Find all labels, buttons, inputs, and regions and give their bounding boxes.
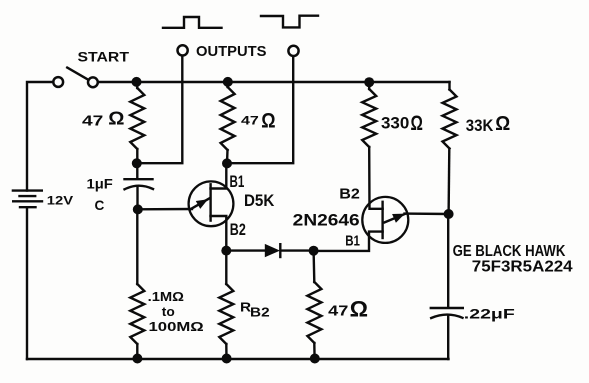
svg-text:B2: B2 bbox=[250, 305, 270, 320]
svg-text:C: C bbox=[95, 198, 105, 213]
svg-text:.1MΩ: .1MΩ bbox=[148, 289, 184, 304]
svg-text:.22μF: .22μF bbox=[464, 305, 516, 321]
svg-text:1μF: 1μF bbox=[87, 176, 114, 192]
svg-text:Ω: Ω bbox=[108, 109, 124, 129]
svg-text:47: 47 bbox=[328, 303, 348, 319]
svg-text:Ω: Ω bbox=[350, 297, 368, 322]
svg-text:12V: 12V bbox=[47, 194, 74, 207]
svg-text:Ω: Ω bbox=[495, 113, 510, 135]
svg-text:100MΩ: 100MΩ bbox=[149, 319, 205, 334]
svg-text:OUTPUTS: OUTPUTS bbox=[196, 43, 267, 60]
svg-text:B2: B2 bbox=[339, 186, 360, 202]
svg-text:75F3R5A224: 75F3R5A224 bbox=[472, 259, 573, 276]
svg-text:47: 47 bbox=[82, 114, 103, 130]
svg-text:2N2646: 2N2646 bbox=[293, 211, 360, 229]
svg-text:B2: B2 bbox=[230, 221, 246, 239]
svg-text:B1: B1 bbox=[345, 233, 360, 249]
svg-text:330: 330 bbox=[381, 114, 409, 133]
svg-text:to: to bbox=[162, 305, 175, 319]
svg-text:GE BLACK HAWK: GE BLACK HAWK bbox=[453, 243, 566, 260]
svg-text:Ω: Ω bbox=[411, 111, 423, 135]
svg-text:Ω: Ω bbox=[261, 108, 275, 132]
svg-text:B1: B1 bbox=[230, 173, 245, 191]
svg-text:D5K: D5K bbox=[244, 192, 274, 210]
svg-text:START: START bbox=[78, 50, 130, 65]
svg-text:47: 47 bbox=[241, 114, 259, 127]
svg-text:33K: 33K bbox=[466, 117, 494, 135]
